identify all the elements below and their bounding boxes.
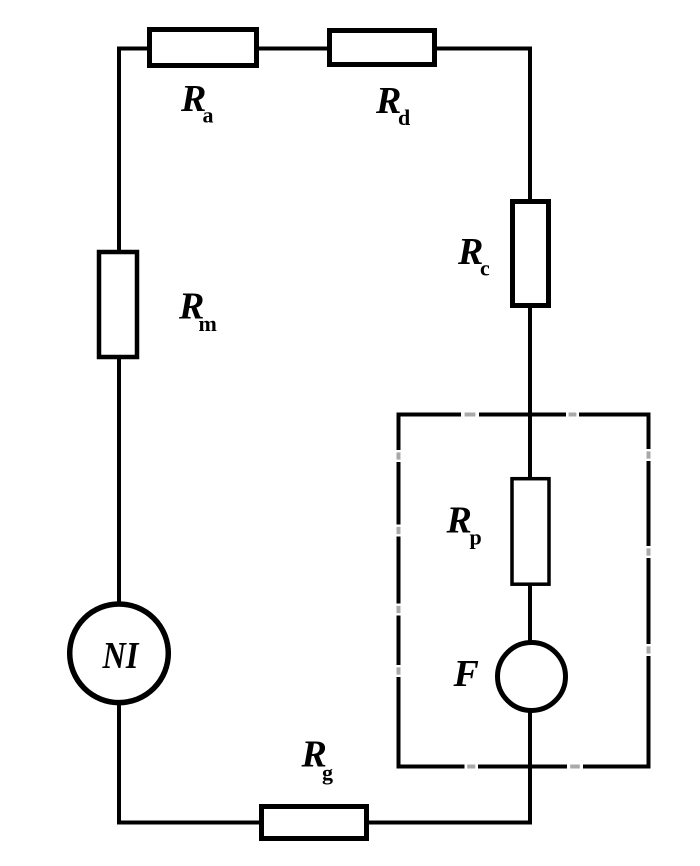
svg-text:m: m (199, 311, 217, 336)
svg-text:p: p (470, 525, 482, 550)
svg-text:F: F (453, 653, 479, 695)
svg-text:d: d (398, 105, 410, 130)
svg-text:R: R (446, 500, 472, 542)
svg-text:a: a (203, 103, 214, 128)
svg-text:g: g (322, 760, 333, 785)
svg-text:NI: NI (102, 635, 140, 677)
svg-text:c: c (480, 256, 490, 281)
